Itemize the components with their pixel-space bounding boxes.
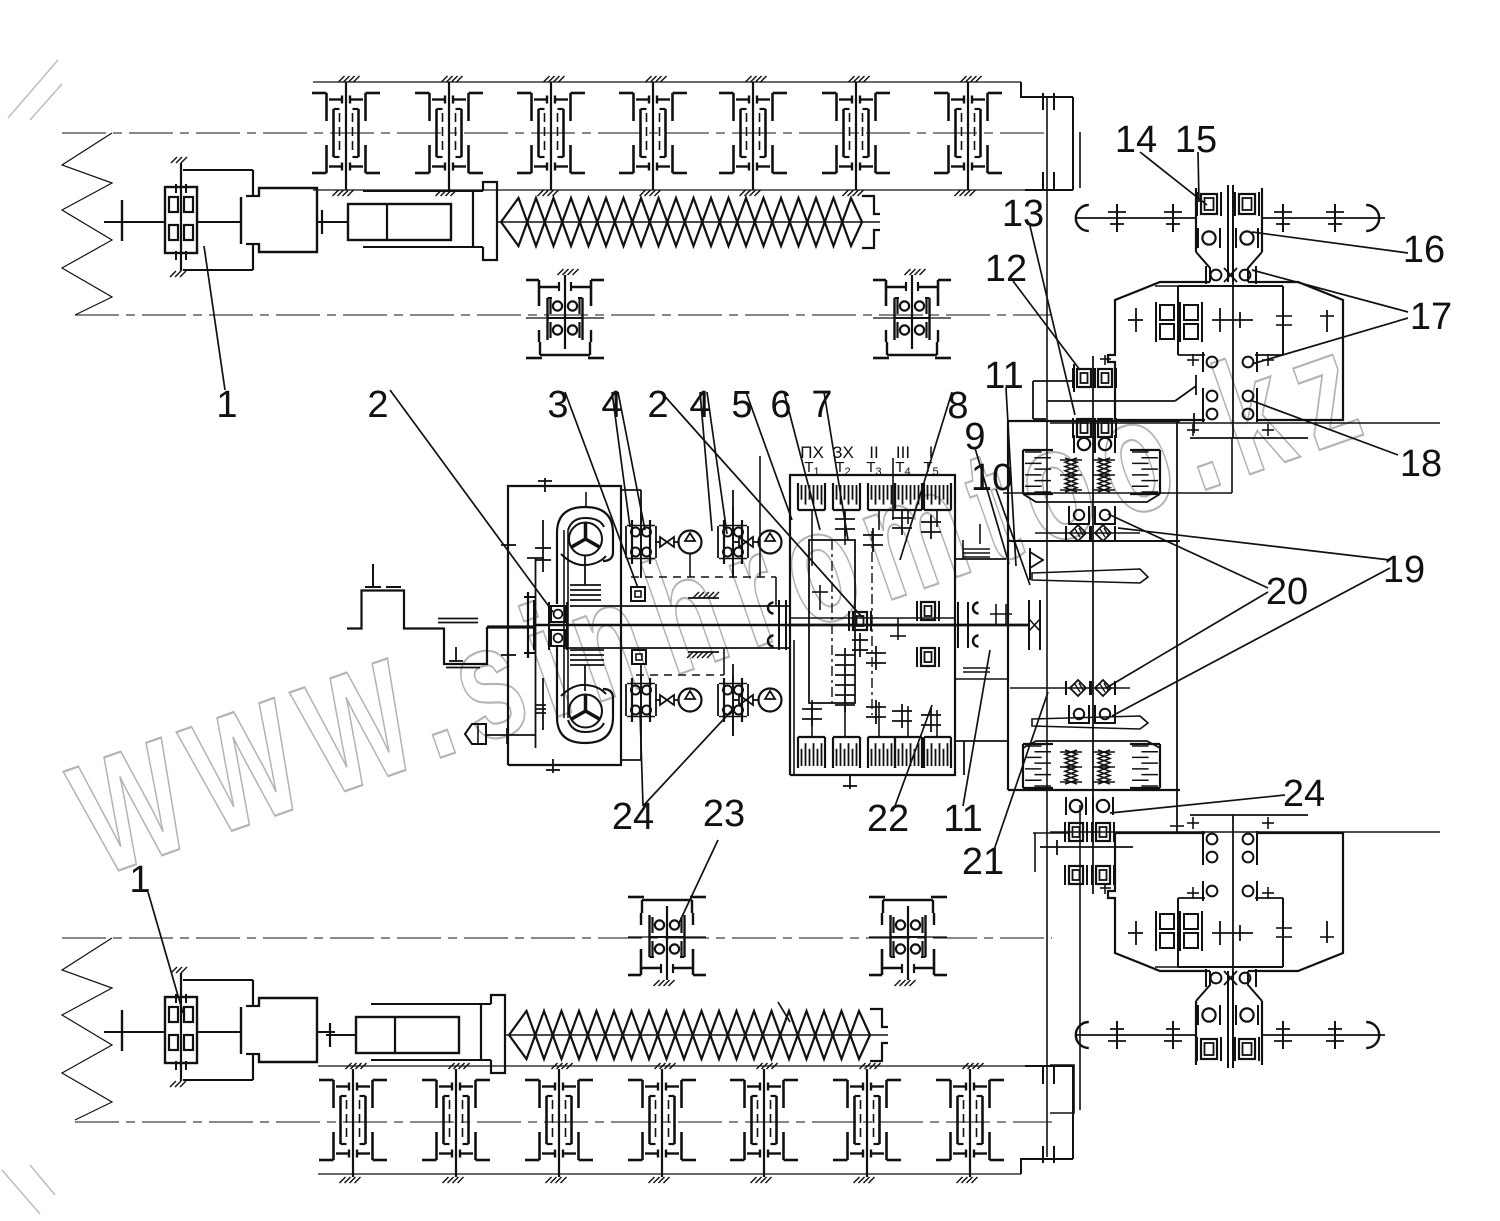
- gear 1103,832: [1092, 822, 1114, 842]
- centerline bottom lower: [75, 1121, 1052, 1123]
- engine input stepped shaft: [347, 564, 535, 668]
- svg-text:12: 12: [985, 248, 1027, 290]
- svg-text:3: 3: [547, 384, 568, 426]
- shaft support upper: [688, 597, 719, 599]
- clutch pack 798: [798, 737, 825, 768]
- clutch pack 924: [924, 483, 951, 510]
- bearing 1084,444: [1074, 435, 1094, 453]
- svg-text:24: 24: [1283, 773, 1325, 815]
- svg-text:10: 10: [971, 457, 1013, 499]
- leader lines: [148, 152, 1408, 1022]
- clutch pack 833: [833, 737, 860, 768]
- suspension spring: [497, 196, 880, 248]
- planet gears: [1128, 911, 1334, 951]
- track bracket top-right: [1021, 82, 1073, 97]
- pump gear lower: [542, 678, 544, 730]
- road wheel x=764: [730, 1063, 798, 1183]
- final drive top-right: [1076, 185, 1385, 438]
- road wheel x=970: [936, 1063, 1004, 1183]
- coupling diamond 1078,688: [1066, 680, 1090, 696]
- gear 1084,428: [1073, 418, 1095, 438]
- number labels: [129, 119, 1452, 901]
- gearbox output: [955, 524, 1148, 729]
- svg-text:20: 20: [1266, 571, 1308, 613]
- oil pump: [465, 724, 486, 744]
- bearing 1105,444: [1095, 435, 1115, 453]
- svg-text:24: 24: [612, 796, 654, 838]
- clutch pack 868: [868, 737, 895, 768]
- gear range labels: [800, 443, 933, 462]
- svg-text:15: 15: [1175, 119, 1217, 161]
- clutch pack 895: [895, 483, 922, 510]
- svg-text:13: 13: [1002, 193, 1044, 235]
- support roller x=912: [873, 269, 951, 358]
- road wheel x=867: [833, 1063, 901, 1183]
- steering clutch upper: [1008, 418, 1180, 832]
- road wheel x=753: [719, 76, 787, 196]
- sprocket output shaft: [1076, 1021, 1385, 1049]
- bearing cup 1105,515: [1095, 506, 1115, 524]
- brake pack 1023: [1023, 744, 1053, 788]
- coil spring 1104: [1093, 458, 1115, 492]
- shaft bearing upper: [631, 587, 645, 601]
- gear cluster 733,700: [718, 664, 748, 736]
- svg-text:21: 21: [962, 841, 1004, 883]
- planet carrier box: [1155, 286, 1283, 355]
- turbine wheel 586,711: [569, 695, 602, 728]
- svg-text:22: 22: [867, 798, 909, 840]
- planet gears: [1128, 302, 1334, 342]
- gear cluster 641,700: [626, 664, 656, 736]
- final drive gear block: [1196, 971, 1262, 1068]
- hull line: [1046, 98, 1048, 1157]
- svg-text:6: 6: [770, 384, 791, 426]
- svg-text:2: 2: [647, 384, 668, 426]
- bearing cup 1079,714: [1069, 705, 1089, 723]
- shaft bearing lower: [632, 650, 646, 664]
- input shaft: [487, 625, 535, 628]
- clutch pack 798: [798, 483, 825, 510]
- track rail top upper: [313, 81, 1021, 83]
- torn hull edge bottom-left: [62, 938, 112, 1120]
- coupling diamond 1103,533: [1091, 525, 1115, 541]
- gearbox input coupling: [768, 603, 774, 614]
- valve 667,542: [655, 537, 679, 547]
- steering mid couplings: [1010, 680, 1130, 723]
- gear 1105,378: [1094, 368, 1116, 388]
- bearing 1103,806: [1093, 797, 1113, 815]
- svg-text:2: 2: [367, 384, 388, 426]
- road wheel x=456: [422, 1063, 490, 1183]
- road wheel x=449: [415, 76, 483, 196]
- coil spring 1071: [1060, 458, 1082, 492]
- pump 770,542: [759, 531, 782, 554]
- watermark: [52, 291, 1394, 910]
- support roller x=565: [526, 269, 604, 358]
- track rail bottom upper: [318, 1065, 1025, 1067]
- turbine shaft splines upper: [584, 556, 586, 585]
- input flange bearings: [524, 592, 567, 658]
- gear 1076,832: [1065, 822, 1087, 842]
- clutch pack 833: [833, 483, 860, 510]
- road wheel x=653: [619, 76, 687, 196]
- bevel mesh lower: [1187, 815, 1308, 971]
- gearbox interior: [790, 510, 955, 775]
- gear 1076,875: [1065, 865, 1087, 885]
- bearing cup 1105,714: [1095, 705, 1115, 723]
- turbine wheel 586,539: [569, 523, 602, 556]
- main shaft: [535, 624, 1029, 627]
- road wheel x=353: [319, 1063, 387, 1183]
- torn hull edge top-left: [62, 133, 112, 315]
- lower gear train: [626, 649, 782, 760]
- brake pack 1130: [1130, 744, 1160, 788]
- sprocket output shaft: [1076, 204, 1385, 232]
- svg-text:9: 9: [964, 416, 985, 458]
- track rail bottom lower: [318, 1173, 1021, 1175]
- coupling diamond 1078,533: [1066, 525, 1090, 541]
- pump 690,542: [679, 531, 702, 554]
- svg-text:23: 23: [703, 793, 745, 835]
- svg-text:17: 17: [1410, 296, 1452, 338]
- centerline top lower: [75, 314, 1052, 316]
- clutch pack 924: [924, 737, 951, 768]
- svg-text:7: 7: [811, 384, 832, 426]
- gear cluster 641,542: [626, 506, 656, 578]
- svg-text:11: 11: [943, 798, 982, 840]
- valve 746,700: [734, 695, 758, 705]
- svg-text:5: 5: [731, 384, 752, 426]
- coil spring 1104: [1093, 750, 1115, 784]
- track rail top lower: [313, 189, 1025, 191]
- gear 1103,875: [1092, 865, 1114, 885]
- torus upper: [557, 507, 613, 604]
- pump gear upper: [542, 520, 544, 572]
- svg-text:11: 11: [984, 355, 1023, 397]
- gear 1105,428: [1094, 418, 1116, 438]
- brake pack 1130: [1130, 450, 1160, 494]
- gearbox housing: [790, 475, 1008, 789]
- torque converter housing: [501, 478, 641, 773]
- final drive housing: [1108, 833, 1343, 971]
- bearing 1076,806: [1066, 797, 1086, 815]
- gear 860,621: [849, 611, 871, 631]
- bevel mesh lower: [1187, 282, 1308, 438]
- bearing cup 1079,515: [1069, 506, 1089, 524]
- final drive gear block: [1196, 185, 1262, 282]
- final drive housing: [1108, 282, 1343, 420]
- clutch pack 868: [868, 483, 895, 510]
- pump 690,700: [679, 689, 702, 712]
- bevel mesh upper: [1196, 969, 1262, 1001]
- upper gear train: [626, 456, 893, 606]
- watermark corner fragments: [8, 60, 58, 118]
- steering clutch lower: [1008, 741, 1180, 894]
- pump 770,700: [759, 689, 782, 712]
- svg-text:4: 4: [601, 384, 622, 426]
- centerline top hull: [62, 132, 1050, 134]
- track bracket bottom-right: [1021, 1159, 1073, 1174]
- svg-text:16: 16: [1403, 229, 1445, 271]
- hollow shaft lower: [563, 647, 790, 649]
- svg-text:14: 14: [1115, 119, 1157, 161]
- svg-text:1: 1: [216, 384, 237, 426]
- bevel mesh upper: [1196, 252, 1262, 284]
- centerline bottom hull: [62, 937, 1052, 939]
- hull links right: [1050, 422, 1440, 424]
- brake pack 1023: [1023, 450, 1053, 494]
- track drive unit: [104, 157, 335, 277]
- track drive unit: [104, 967, 335, 1087]
- valve 667,700: [655, 695, 679, 705]
- support roller x=667: [628, 897, 706, 986]
- svg-text:18: 18: [1400, 443, 1442, 485]
- road wheel x=346: [312, 76, 380, 196]
- svg-text:1: 1: [129, 859, 150, 901]
- gear 1084,378: [1073, 368, 1095, 388]
- support roller x=908: [869, 897, 947, 986]
- svg-text:19: 19: [1383, 549, 1425, 591]
- road wheel x=551: [517, 76, 585, 196]
- shock absorber: [326, 995, 505, 1073]
- svg-text:4: 4: [689, 384, 710, 426]
- steering gear upper block: [1033, 355, 1196, 894]
- clutch pack 895: [895, 737, 922, 768]
- final drive bottom-right: [1076, 815, 1385, 1068]
- suspension spring: [505, 1009, 888, 1061]
- coupling diamond 1103,688: [1091, 680, 1115, 696]
- road wheel x=968: [934, 76, 1002, 196]
- coil spring 1071: [1060, 750, 1082, 784]
- road wheel x=559: [525, 1063, 593, 1183]
- road wheel x=662: [628, 1063, 696, 1183]
- gear cluster 733,542: [718, 506, 748, 578]
- planet carrier box: [1155, 898, 1283, 967]
- torus lower: [557, 646, 613, 743]
- valve 746,542: [734, 537, 758, 547]
- turbine shaft splines lower: [584, 665, 586, 691]
- hollow shaft upper: [570, 605, 790, 607]
- stator sleeve: [563, 530, 565, 718]
- road wheel x=856: [822, 76, 890, 196]
- gear 928,657: [917, 647, 939, 667]
- shaft support lower: [688, 651, 719, 653]
- shock absorber: [318, 182, 497, 260]
- gear 928,611: [917, 601, 939, 621]
